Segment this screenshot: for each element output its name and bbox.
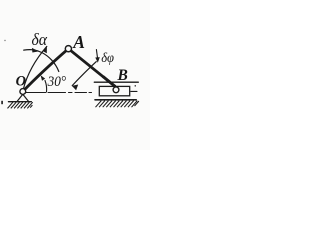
svg-text:O: O xyxy=(16,73,26,89)
svg-text:B: B xyxy=(117,67,128,84)
svg-text:δα: δα xyxy=(32,30,48,49)
svg-text:30°: 30° xyxy=(47,74,67,90)
svg-text:δφ: δφ xyxy=(101,50,114,65)
svg-text:A: A xyxy=(72,32,85,52)
